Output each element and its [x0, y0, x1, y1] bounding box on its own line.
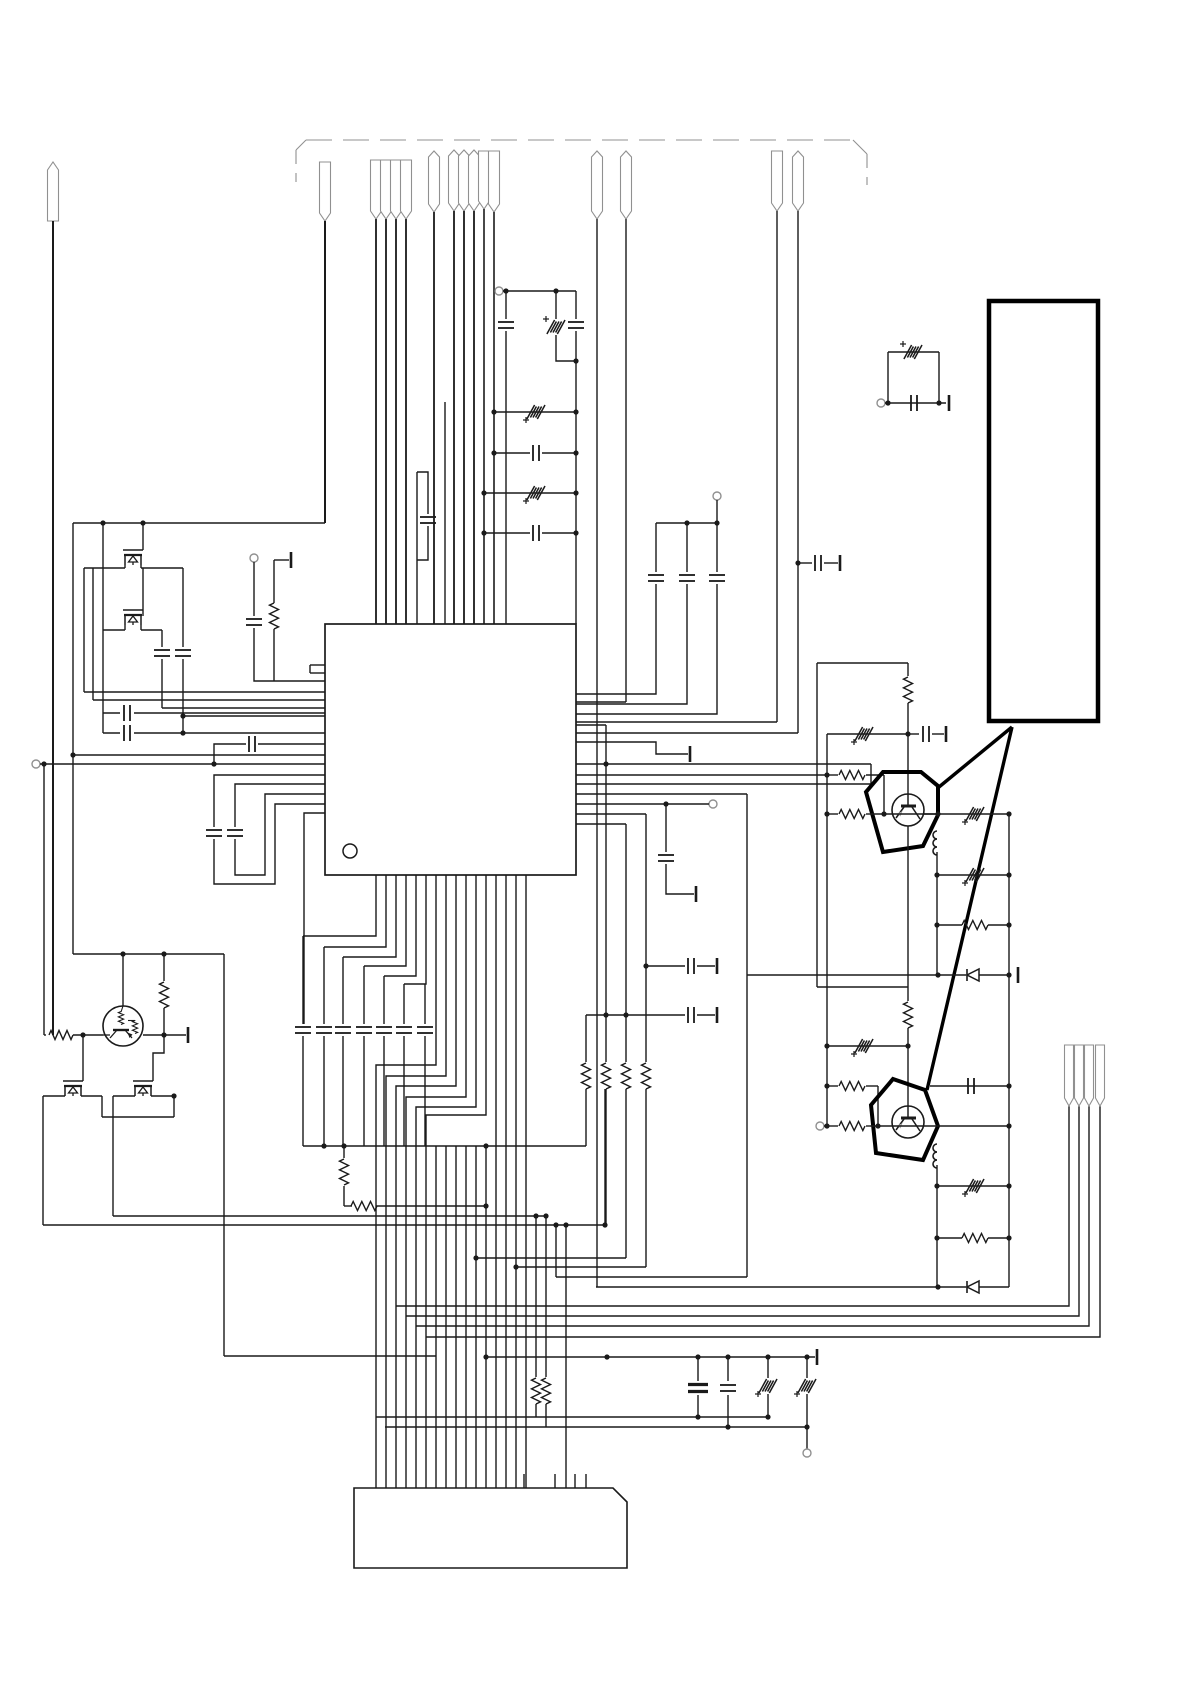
node row y1086b [930, 1083, 1012, 1088]
wire [42, 1096, 44, 1225]
wire [383, 976, 385, 1024]
terminal [250, 554, 258, 562]
wire [936, 852, 938, 975]
node row y1186 [934, 1183, 1011, 1188]
wire [323, 947, 325, 1024]
node row y1427 [385, 1426, 807, 1428]
tbar [274, 552, 291, 568]
capacitor C13 [679, 575, 695, 581]
node row y734 [827, 733, 908, 735]
wire [716, 500, 718, 523]
diode D2 [967, 1281, 979, 1293]
node row y412 [491, 409, 578, 414]
wire [72, 523, 74, 954]
IC pin1 marker [343, 844, 357, 858]
capacitor C26 [688, 1385, 708, 1392]
wire [605, 1015, 607, 1062]
wire [556, 1276, 747, 1278]
terminal [709, 800, 717, 808]
wire [363, 1036, 365, 1146]
wire [122, 954, 124, 1006]
resistor R14 [642, 1063, 651, 1089]
wire [343, 875, 396, 957]
wire [403, 1036, 405, 1146]
IC U1 [325, 624, 576, 875]
wire [396, 875, 456, 1488]
bus wire 1 [396, 1106, 1069, 1306]
wire [605, 725, 607, 1015]
wire gate rails [84, 568, 143, 700]
wire [463, 211, 465, 624]
capacitor C8 [568, 322, 584, 328]
node row y1086a [824, 1083, 838, 1088]
wire [645, 966, 647, 1062]
connector pin P11 [479, 151, 490, 209]
wire [553, 1222, 558, 1277]
wire q6 leads [43, 1095, 102, 1097]
node row y794r [576, 793, 747, 795]
inductor L2 [933, 1144, 937, 1168]
wire loopB2 [235, 794, 325, 875]
node row y1287 [596, 1284, 966, 1289]
connector pin P14 [621, 151, 632, 219]
wire [505, 331, 507, 624]
wire [473, 211, 475, 624]
capacitor C29 polarized [794, 1379, 816, 1397]
capacitor C16 [911, 395, 917, 411]
wire [979, 967, 1018, 983]
wire cap spur [417, 472, 428, 514]
wire rail827 [826, 734, 828, 1126]
wire [979, 1286, 1009, 1288]
resistor R10 [340, 1159, 349, 1185]
wire [375, 219, 377, 624]
wire [102, 523, 104, 630]
node row y764r [576, 761, 871, 766]
module box [989, 301, 1098, 721]
resistor R8 [160, 982, 169, 1008]
capacitor C7 polarized [543, 316, 565, 334]
wire [576, 584, 656, 694]
node row y1126a [824, 1123, 838, 1128]
node row y784r [576, 783, 871, 785]
capacitor C3 [206, 830, 222, 836]
connector pin P3 [371, 160, 382, 219]
wire [182, 659, 184, 733]
node row y824r [576, 823, 626, 825]
capacitor C17 polarized [900, 341, 922, 359]
wire [433, 212, 435, 624]
wire [102, 630, 104, 733]
wire [585, 1015, 587, 1062]
node row base B [870, 1123, 938, 1128]
wire loopA2 [214, 804, 325, 884]
connector J2 [354, 1488, 627, 1568]
callout line 1 [939, 727, 1012, 787]
wire [725, 1395, 730, 1430]
wire [253, 562, 255, 616]
capacitor C [396, 1027, 412, 1033]
wire [386, 875, 446, 1488]
terminal [495, 287, 503, 295]
connector pin P12 [489, 151, 500, 212]
wire q2 leads [103, 625, 162, 630]
wire [596, 219, 598, 1287]
wire [870, 764, 872, 784]
bus wire 4 [426, 1106, 1100, 1337]
node row y925 [934, 921, 1011, 930]
capacitor C11 [420, 517, 436, 523]
capacitor C [295, 1027, 311, 1033]
terminal [816, 1122, 824, 1130]
transistor Q1 mosfet [123, 550, 143, 565]
wire tbar row [576, 742, 690, 762]
resistor R12 [602, 1063, 611, 1089]
node row y692 [84, 691, 325, 693]
transistor Q2 mosfet [123, 610, 143, 625]
connector pin P7 [429, 151, 440, 212]
wire [384, 875, 416, 976]
wire [455, 1146, 457, 1488]
capacitor C14 [709, 575, 725, 581]
capacitor C12 [648, 575, 664, 581]
diode D1 [967, 969, 979, 981]
resistor R16 [542, 1378, 551, 1427]
wire [606, 1356, 608, 1358]
node row y1216 [113, 1215, 546, 1217]
capacitor C [376, 1027, 392, 1033]
wire [625, 1089, 627, 1258]
wire [416, 875, 476, 1488]
terminal [877, 399, 885, 407]
capacitor C1 [154, 650, 170, 656]
connector pin P5 [391, 160, 402, 219]
wire [173, 1096, 175, 1117]
wire [563, 1222, 568, 1488]
capacitor C22 [968, 1078, 974, 1094]
wire [475, 1146, 477, 1488]
terminal [803, 1449, 811, 1457]
wire [746, 794, 748, 1277]
node row y775a [824, 772, 838, 777]
node row y702 [576, 701, 626, 703]
wire [625, 219, 627, 702]
stub pins [524, 1474, 586, 1488]
node row y1046 [824, 1043, 908, 1048]
node row y453 [491, 445, 578, 461]
node row y708 [162, 707, 325, 709]
wire [406, 875, 466, 1488]
capacitor C10 polarized [523, 486, 545, 504]
wire [324, 221, 326, 523]
node row y700 [93, 699, 325, 701]
wire [797, 211, 799, 733]
capacitor C [316, 1027, 332, 1033]
node row y403 [885, 395, 949, 411]
wire [804, 1394, 809, 1430]
dashed connector boundary [296, 140, 867, 185]
wire [416, 472, 418, 624]
wire [505, 875, 507, 1488]
node row y755 [70, 752, 325, 757]
wire [936, 1165, 938, 1287]
wire [697, 958, 717, 974]
wire [806, 1357, 808, 1378]
wire [376, 875, 436, 1488]
node row y352 [888, 351, 939, 353]
wire [142, 523, 144, 550]
wire [163, 954, 165, 981]
wire col425 [417, 984, 433, 1146]
wire [404, 875, 426, 984]
wire [324, 875, 386, 947]
wire [112, 1096, 114, 1216]
node row y954 [73, 951, 224, 956]
wire [765, 1394, 770, 1420]
connector pin P4 [381, 160, 392, 219]
wire [417, 526, 428, 560]
node row y1417 [376, 1416, 768, 1418]
wire [485, 1146, 487, 1488]
connector pin P9 [459, 150, 470, 211]
capacitor C [335, 1027, 351, 1033]
node row y1117 [102, 1116, 174, 1118]
wire [223, 954, 225, 1356]
wire [343, 1146, 345, 1158]
resistor R11 [582, 1063, 591, 1089]
capacitor C2 [175, 650, 191, 656]
wire [905, 703, 910, 794]
capacitor C28 polarized [755, 1379, 777, 1397]
connector pin P8 [449, 150, 460, 211]
resistor R9 [44, 1031, 103, 1040]
node row y1206 [344, 1202, 489, 1211]
wire [52, 221, 54, 1035]
wire [161, 630, 163, 647]
wire [575, 291, 577, 319]
node row y523 [73, 522, 325, 524]
node row y814r [576, 813, 646, 815]
bus wire 2 [406, 1106, 1079, 1316]
node row y875 [934, 872, 1011, 877]
node row y533 [481, 525, 578, 541]
connector pin P13 [592, 151, 603, 219]
wire [153, 1008, 164, 1081]
node row y1126b [938, 1123, 1012, 1128]
wire [342, 1036, 344, 1146]
wire [343, 1186, 345, 1206]
wire [161, 659, 163, 708]
wire [543, 1213, 548, 1377]
wire [435, 1146, 437, 1488]
stub rows [310, 665, 325, 673]
wire [444, 402, 446, 624]
wire [101, 1096, 103, 1117]
wire [82, 1035, 84, 1081]
wire q7 leads [113, 1093, 177, 1098]
node row y716 [180, 713, 325, 718]
node row y744 [214, 736, 325, 764]
wire [697, 1007, 717, 1023]
wire [697, 1357, 699, 1381]
resistor R6 [839, 1082, 878, 1127]
wire [302, 1036, 304, 1146]
resistor R13 [622, 1063, 631, 1089]
node row y1146 [303, 1143, 586, 1148]
capacitor C6 [498, 322, 514, 328]
wire [602, 1089, 607, 1228]
wire [907, 663, 909, 676]
transistor Q7 mosfet [133, 1081, 153, 1096]
transistor Q4 [892, 1106, 924, 1138]
terminal [713, 492, 721, 500]
resistor R3 [839, 771, 884, 815]
node row y493 [481, 490, 578, 495]
wire [385, 219, 387, 624]
capacitor C21 polarized [851, 1039, 873, 1057]
wire [666, 864, 696, 902]
node row y1267 [513, 1264, 646, 1269]
wire [465, 1146, 467, 1488]
connector pin P2 [320, 162, 331, 221]
wire [483, 209, 485, 624]
node row y523r [656, 520, 720, 525]
wire [573, 331, 578, 624]
shield polygon A [866, 772, 938, 852]
wire [625, 1015, 627, 1062]
capacitor C27 [720, 1385, 736, 1391]
capacitor C18 polarized [851, 727, 873, 745]
node row y1015 [586, 1012, 685, 1017]
wire [43, 764, 45, 1035]
terminal [32, 760, 40, 768]
wire [776, 211, 778, 722]
wire [656, 523, 717, 572]
wire [585, 1089, 587, 1146]
wire [645, 1089, 647, 1267]
wire [905, 1028, 910, 1106]
node row y975 [747, 972, 966, 977]
capacitor C24 [688, 1007, 694, 1023]
resistor R4 [839, 810, 870, 819]
connector pin P17 [1065, 1045, 1074, 1106]
node row base A [870, 811, 938, 816]
capacitor C4 [227, 830, 243, 836]
junction [100, 520, 145, 525]
inductor L1 [933, 831, 937, 855]
capacitor C25 [688, 958, 694, 974]
resistor R7 [839, 1122, 870, 1131]
wire [453, 211, 455, 624]
node row y722 [576, 721, 777, 723]
wire [727, 1357, 729, 1381]
capacitor C15 [658, 855, 674, 861]
node row y291 [503, 288, 576, 293]
bus wire 3 [416, 1106, 1089, 1326]
transistor Q3 [892, 794, 924, 826]
wire q1 leads [84, 565, 183, 568]
connector pin P20 [1096, 1045, 1105, 1106]
wire [665, 804, 667, 852]
wire [323, 1036, 325, 1146]
wire rail1009 [1008, 814, 1010, 1287]
node row y804 [576, 801, 709, 806]
node row y663 [817, 662, 908, 664]
wire [806, 1427, 808, 1449]
wire [576, 584, 717, 714]
wire [624, 1088, 626, 1090]
connector pin P1 [48, 162, 59, 221]
node row y987 [817, 986, 908, 988]
wire [525, 875, 527, 1488]
wire [182, 568, 184, 647]
wire [363, 966, 365, 1024]
node row y1035 [143, 1027, 188, 1043]
transistor Q6 mosfet [63, 1081, 83, 1096]
node row y1356 [224, 1355, 436, 1357]
wire [403, 984, 405, 1024]
node row y713 [103, 705, 325, 721]
node row y775r [576, 774, 827, 776]
wire [445, 1146, 447, 1488]
wire [383, 1036, 385, 1146]
resistor R15 [532, 1378, 541, 1417]
connector pin P16 [793, 151, 804, 211]
capacitor C20 polarized [962, 868, 984, 886]
wire [72, 953, 74, 955]
wire [515, 875, 517, 1488]
wire [426, 875, 486, 1488]
connector pin P18 [1075, 1045, 1084, 1106]
connector pin P10 [469, 150, 480, 211]
wire [604, 1089, 606, 1225]
resistor R5 [904, 1002, 913, 1028]
wire [364, 875, 406, 966]
node row y733 [103, 725, 325, 741]
wire [254, 628, 325, 681]
transistor Q5 digital [103, 1006, 143, 1046]
node row y1258 [473, 1255, 626, 1260]
wire [52, 1034, 54, 1036]
capacitor C23 polarized [962, 1179, 984, 1197]
node row y1238 [934, 1234, 1011, 1243]
node row y563 [795, 555, 840, 571]
wire [625, 824, 627, 1015]
connector pin P19 [1085, 1045, 1094, 1106]
shield polygon B [871, 1079, 938, 1160]
wire [816, 663, 818, 987]
capacitor C19 polarized [962, 807, 984, 825]
wire [505, 291, 507, 319]
wire [576, 584, 687, 704]
node row y814b [924, 811, 1012, 816]
wire [495, 875, 497, 1488]
connector pin P6 [401, 160, 412, 219]
wire loopB [235, 784, 325, 827]
node row y764 [40, 761, 325, 766]
wire [645, 814, 647, 966]
capacitor C9 polarized [523, 405, 545, 423]
wire [695, 1395, 700, 1420]
wire [493, 212, 495, 624]
node row y1225 [43, 1224, 605, 1226]
wire [555, 291, 557, 319]
node row y966 [643, 963, 685, 968]
wire col304 [304, 813, 325, 1024]
capacitor C [356, 1027, 372, 1033]
wire [302, 936, 304, 1024]
wire [556, 335, 576, 361]
